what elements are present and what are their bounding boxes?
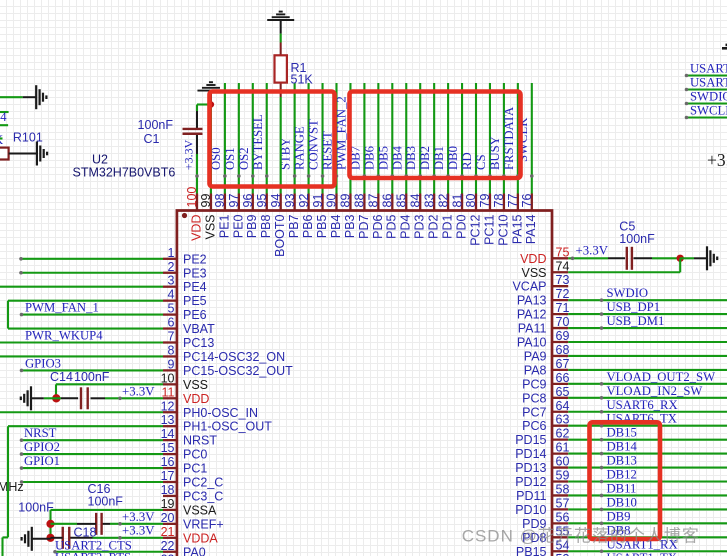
svg-text:PA11: PA11 [518, 322, 547, 336]
wire net BUSY (top pin 78) [503, 83, 505, 194]
svg-text:USART2_RTS: USART2_RTS [55, 551, 131, 556]
svg-text:GPIO1: GPIO1 [24, 454, 60, 468]
svg-text:DB4: DB4 [390, 145, 404, 170]
wire to ground top-left [0, 96, 23, 98]
U2 pin 54 (PB15) right stub + number + name [516, 538, 570, 556]
svg-text:84: 84 [408, 194, 422, 208]
wire net DB12 (right pin 59) [568, 480, 727, 482]
svg-text:VDDA: VDDA [183, 531, 218, 545]
svg-text:6: 6 [168, 316, 175, 330]
svg-text:67: 67 [556, 357, 570, 371]
wire net DB14 (right pin 61) [568, 453, 727, 455]
svg-text:RD: RD [460, 152, 474, 170]
svg-text:85: 85 [394, 194, 408, 208]
U2 pin 90 (PB4) top stub + number + name [325, 194, 343, 239]
svg-text:79: 79 [478, 194, 492, 208]
svg-text:1: 1 [168, 246, 175, 260]
wire VSS pin10 to junction [56, 383, 163, 385]
svg-text:VDD: VDD [183, 392, 209, 406]
svg-text:PA13: PA13 [517, 294, 547, 308]
svg-text:VSS: VSS [521, 266, 546, 280]
capacitor C1 [183, 129, 203, 134]
capacitor C14 [81, 387, 88, 409]
U2 pin 71 (PA12) right stub + number + name [517, 301, 570, 322]
wire net USART6_RX (right pin 64) [568, 411, 727, 413]
svg-text:92: 92 [297, 194, 311, 208]
svg-text:GPIO2: GPIO2 [24, 440, 60, 454]
svg-text:58: 58 [556, 482, 570, 496]
resistor R1 body [275, 55, 287, 82]
wire net OS0 (top pin 98) [224, 83, 226, 194]
U2 pin 59 (PD12) right stub + number + name [515, 469, 569, 490]
svg-text:4: 4 [168, 288, 175, 302]
ground symbol at R101 [37, 142, 47, 166]
wire net DB9 (right pin 56) [568, 522, 727, 524]
svg-text:USART1_TX: USART1_TX [607, 551, 677, 556]
svg-text:PD7: PD7 [357, 214, 371, 238]
svg-text:OS2: OS2 [237, 147, 251, 170]
svg-text:DB6: DB6 [362, 146, 376, 170]
svg-text:PC9: PC9 [522, 377, 546, 391]
svg-text:7: 7 [168, 330, 175, 344]
wire NRST (left pin 14) [22, 439, 164, 441]
svg-text:PE2: PE2 [183, 252, 207, 266]
U2 pin 98 (PE1) top stub + number + name [213, 194, 231, 239]
wire net CONVST (top pin 91) [321, 83, 323, 194]
svg-text:PWR_WKUP4: PWR_WKUP4 [25, 329, 103, 343]
svg-text:61: 61 [556, 441, 570, 455]
svg-text:DB10: DB10 [607, 495, 637, 509]
ground stem to junction [32, 538, 51, 540]
wire net CS (top pin 79) [489, 83, 491, 194]
svg-text:72: 72 [556, 287, 570, 301]
svg-text:10: 10 [161, 371, 175, 385]
wire PE5 (left pin 4) [8, 300, 163, 302]
svg-text:97: 97 [227, 194, 241, 208]
U2 pin 68 (PA9) right stub + number + name [524, 343, 570, 364]
svg-text:VSSA: VSSA [183, 503, 217, 517]
wire VSS pin74 elbow to junction [568, 271, 680, 273]
svg-text:+3.3V: +3.3V [707, 150, 727, 170]
svg-text:PB4: PB4 [329, 214, 343, 238]
wire VSS pin99 to ground [210, 105, 212, 194]
wire C5 to ground junction [652, 257, 680, 259]
svg-text:PB7: PB7 [287, 214, 301, 238]
wire net SWDIO (right pin 72) [568, 299, 727, 301]
svg-text:56: 56 [556, 510, 570, 524]
svg-text:PC8: PC8 [522, 391, 546, 405]
svg-text:PB15: PB15 [516, 545, 547, 556]
svg-text:SWCLK_ES: SWCLK_ES [690, 104, 727, 118]
svg-text:PA0: PA0 [183, 545, 206, 556]
svg-text:95: 95 [255, 194, 269, 208]
U2 pin 12 (PH0-OSC_IN) left stub + number + name [161, 399, 258, 420]
resistor R101 body (cut at left edge) [0, 148, 9, 160]
wire right pin 68 [568, 355, 727, 357]
U2 pin 7 (PC13) left stub + number + name [163, 330, 214, 351]
svg-text:C1: C1 [144, 132, 160, 146]
svg-text:100nF: 100nF [619, 232, 655, 246]
svg-text:PE5: PE5 [183, 294, 207, 308]
U2 pin 93 (PB7) top stub + number + name [283, 194, 301, 239]
svg-text:DB15: DB15 [607, 426, 637, 440]
svg-text:9: 9 [168, 357, 175, 371]
wire junction to ground [680, 257, 694, 259]
U2 pin 4 (PE5) left stub + number + name [163, 288, 207, 309]
svg-text:20: 20 [161, 511, 175, 525]
svg-text:PB9: PB9 [245, 214, 259, 238]
svg-text:PD6: PD6 [371, 214, 385, 238]
svg-text:NRST: NRST [24, 426, 57, 440]
svg-text:21: 21 [161, 525, 175, 539]
svg-text:75: 75 [556, 245, 570, 259]
ground symbol at C5 [707, 246, 717, 270]
svg-text:12: 12 [161, 399, 175, 413]
wire net DB11 (right pin 58) [568, 494, 727, 496]
U2 pin 11 (VDD) left stub + number + name [162, 385, 210, 406]
U2 origin dot [182, 213, 187, 218]
svg-text:BYTESEL: BYTESEL [251, 114, 265, 170]
wire net DB5 (top pin 86) [391, 83, 393, 194]
wire PWM_FAN_1 (left pin 5) [22, 314, 164, 316]
svg-text:DB13: DB13 [607, 454, 637, 468]
svg-text:PD13: PD13 [515, 461, 546, 475]
svg-text:66: 66 [556, 371, 570, 385]
U2 pin 92 (PB6) top stub + number + name [297, 194, 315, 239]
capacitor C5 [627, 247, 632, 270]
svg-text:PC0: PC0 [183, 448, 207, 462]
svg-text:SWDIO: SWDIO [607, 286, 649, 300]
U2 pin 20 (VREF+) left stub + number + name [161, 511, 224, 532]
svg-text:VSS: VSS [203, 215, 217, 240]
svg-text:USART3_TX: USART3_TX [690, 62, 727, 76]
resistor R1 leads [280, 43, 282, 56]
svg-text:DB14: DB14 [607, 440, 638, 454]
wire GPIO1 (left pin 16) [22, 467, 164, 469]
wire stub at left edge y125 [0, 124, 8, 126]
svg-text:PD14: PD14 [515, 447, 546, 461]
wire net DB10 (right pin 57) [568, 508, 727, 510]
svg-text:19: 19 [161, 497, 175, 511]
svg-text:22: 22 [161, 539, 175, 553]
wire net SWCLK_ES (top right) [687, 116, 727, 118]
svg-text:13: 13 [161, 413, 175, 427]
svg-text:VREF+: VREF+ [183, 517, 224, 531]
svg-text:C18: C18 [74, 526, 97, 540]
U2 pin 19 (VSSA) left stub + number + name [161, 497, 217, 518]
U2 pin 67 (PA8) right stub + number + name [524, 357, 570, 378]
junction pin99/C1 [208, 101, 214, 107]
highlight rectangle 3 (DB15-DB8 group) [590, 422, 661, 539]
wire right pin 67 [568, 369, 727, 371]
wire net SWCLK (top pin 76) [531, 83, 533, 194]
ground symbol at C14 [21, 386, 31, 410]
wire USART2_CTS pin22 [55, 551, 163, 553]
svg-text:88: 88 [353, 194, 367, 208]
svg-text:PD4: PD4 [399, 214, 413, 238]
junction C18/ground [46, 534, 54, 542]
U2 pin 96 (PB9) top stub + number + name [241, 194, 259, 239]
capacitor C18 [63, 527, 70, 549]
wire stub at left edge y138 [0, 137, 3, 139]
wire PC2_C (left pin 17) [22, 481, 163, 483]
svg-text:PD1: PD1 [441, 214, 455, 238]
svg-text:VCAP: VCAP [512, 280, 546, 294]
svg-text:PC6: PC6 [522, 419, 546, 433]
svg-text:PC11: PC11 [482, 214, 496, 244]
svg-text:74: 74 [556, 259, 570, 273]
U2 pin 95 (PB8) top stub + number + name [255, 194, 273, 239]
U2 pin 84 (PD3) top stub + number + name [408, 194, 426, 239]
svg-text:PH1-OSC_OUT: PH1-OSC_OUT [183, 420, 272, 434]
capacitor C5 leads [608, 257, 625, 259]
svg-text:U2: U2 [92, 153, 108, 167]
svg-text:DB1: DB1 [432, 146, 446, 170]
ground symbol fragment top right corner [722, 45, 727, 48]
svg-text:14: 14 [161, 427, 175, 441]
svg-text:91: 91 [311, 194, 325, 208]
junction C14/ground/VSS [52, 394, 60, 402]
svg-text:STM32H7B0VBT6: STM32H7B0VBT6 [73, 166, 176, 180]
svg-text:PE6: PE6 [183, 308, 207, 322]
junction C5/VSS/ground [677, 255, 684, 262]
U2 pin 89 (PB3) top stub + number + name [339, 194, 357, 239]
svg-text:PC7: PC7 [522, 405, 546, 419]
U2 pin 86 (PD5) top stub + number + name [381, 194, 399, 239]
wire GPIO2 (left pin 15) [22, 453, 164, 455]
svg-text:94: 94 [269, 194, 283, 208]
U2 pin 79 (PC11) top stub + number + name [478, 194, 496, 245]
U2 pin 64 (PC7) right stub + number + name [522, 399, 569, 420]
svg-text:USART6_RX: USART6_RX [607, 398, 678, 412]
svg-text:PB6: PB6 [301, 214, 315, 238]
wire net DB4 (top pin 85) [405, 83, 407, 194]
wire net VLOAD_IN2_SW (right pin 65) [568, 397, 727, 399]
U2 pin 21 (VDDA) left stub + number + name [161, 525, 219, 546]
svg-text:PA12: PA12 [517, 308, 547, 322]
junction C16/VSSA [46, 520, 54, 528]
wire net VLOAD_OUT2_SW (right pin 66) [568, 383, 727, 385]
U2 pin 10 (VSS) left stub + number + name [161, 371, 208, 392]
svg-text:86: 86 [381, 194, 395, 208]
svg-text:80: 80 [464, 194, 478, 208]
U2 pin 78 (PC10) top stub + number + name [492, 194, 510, 246]
wire VDD pin11 to C14 [105, 397, 163, 399]
U2 pin 83 (PD2) top stub + number + name [422, 194, 440, 239]
svg-text:PD11: PD11 [516, 489, 546, 503]
wire net FRSTDATA (top pin 77) [517, 83, 519, 194]
svg-text:73: 73 [556, 273, 570, 287]
wire net STBY (top pin 93) [294, 83, 296, 194]
U2 pin 58 (PD11) right stub + number + name [516, 482, 569, 503]
wire net DB0 (top pin 81) [461, 83, 463, 194]
svg-text:VSS: VSS [183, 378, 208, 392]
wire net OS1 (top pin 97) [238, 83, 240, 194]
svg-text:SWDIO_ES: SWDIO_ES [690, 90, 727, 104]
capacitor C18 left lead [51, 537, 63, 539]
svg-text:4: 4 [0, 110, 7, 124]
svg-text:PB3: PB3 [343, 214, 357, 238]
svg-text:PC1: PC1 [183, 462, 207, 476]
svg-text:VDD: VDD [189, 215, 203, 241]
wire net DB15 (right pin 62) [568, 439, 727, 441]
U2 pin 63 (PC6) right stub + number + name [522, 413, 569, 434]
wire net OS2 (top pin 96) [252, 83, 254, 194]
ground symbol at C18 [22, 527, 32, 551]
svg-text:PC2_C: PC2_C [183, 476, 223, 490]
svg-text:PC10: PC10 [496, 214, 510, 245]
svg-text:70: 70 [556, 315, 570, 329]
svg-text:+3.3V: +3.3V [122, 385, 155, 399]
wire C1 to VSS junction [196, 105, 198, 112]
U2 pin 87 (PD6) top stub + number + name [367, 194, 385, 239]
svg-text:64: 64 [556, 399, 570, 413]
svg-text:CONVST: CONVST [307, 119, 321, 170]
svg-text:DB9: DB9 [607, 509, 631, 523]
wire PC14-OSC32_ON (left pin 8) [0, 355, 163, 357]
svg-text:59: 59 [556, 469, 570, 483]
U2 pin 57 (PD10) right stub + number + name [515, 496, 569, 517]
svg-text:65: 65 [556, 385, 570, 399]
wire net DB1 (top pin 82) [447, 83, 449, 194]
svg-text:DB3: DB3 [404, 146, 418, 170]
wire oscillator branch vertical [7, 426, 9, 537]
svg-text:3: 3 [168, 274, 175, 288]
U2 pin 88 (PD7) top stub + number + name [353, 194, 371, 239]
wire net SWDIO_ES (top right) [687, 102, 727, 104]
U2 pin 6 (VBAT) left stub + number + name [163, 316, 215, 337]
wire net RESET (top pin 90) [335, 83, 337, 194]
svg-text:FRSTDATA: FRSTDATA [502, 106, 516, 170]
svg-text:5: 5 [168, 302, 175, 316]
wire right pin 69 [568, 341, 727, 343]
svg-text:R101: R101 [13, 131, 43, 145]
wire VBAT (left pin 6) [8, 327, 163, 329]
wire stub at left edge y112 [0, 111, 9, 113]
svg-text:PE0: PE0 [231, 214, 245, 238]
U2 pin 2 (PE3) left stub + number + name [163, 260, 207, 281]
wire PH0-OSC_IN (left pin 12) [0, 411, 163, 413]
svg-text:96: 96 [241, 194, 255, 208]
U2 pin 94 (BOOT0) top stub + number + name [269, 194, 287, 257]
U2 pin 77 (PA15) top stub + number + name [506, 194, 524, 245]
wire net USART1_RX (right pin 54) [568, 550, 727, 552]
svg-text:87: 87 [367, 194, 381, 208]
U2 pin 60 (PD13) right stub + number + name [515, 455, 569, 476]
U2 pin 15 (PC0) left stub + number + name [161, 441, 208, 462]
svg-text:82: 82 [436, 194, 450, 208]
svg-text:25MHz: 25MHz [0, 480, 24, 494]
U2 pin 22 (PA0) left stub + number + name [161, 539, 206, 556]
svg-text:98: 98 [213, 194, 227, 208]
svg-text:68: 68 [556, 343, 570, 357]
svg-text:DB2: DB2 [418, 146, 432, 170]
svg-text:11: 11 [162, 385, 175, 399]
svg-text:VBAT: VBAT [183, 322, 215, 336]
svg-text:RANGE: RANGE [293, 126, 307, 170]
svg-text:PE4: PE4 [183, 280, 207, 294]
wire PWR_WKUP4 (left pin 7) [0, 341, 163, 343]
svg-text:15: 15 [161, 441, 175, 455]
wire PE3 (left pin 2) [21, 272, 163, 274]
U2 pin 16 (PC1) left stub + number + name [161, 455, 208, 476]
svg-text:DB5: DB5 [376, 146, 390, 170]
svg-text:100nF: 100nF [18, 501, 54, 515]
U2 pin 80 (PC12) top stub + number + name [464, 194, 482, 246]
svg-text:89: 89 [339, 194, 353, 208]
svg-text:+3.3V: +3.3V [182, 139, 196, 170]
svg-text:+3.3V: +3.3V [122, 510, 155, 524]
U2 pin 9 (PC15-OSC32_OUT) left stub + number + name [163, 357, 293, 378]
svg-text:100nF: 100nF [74, 370, 110, 384]
wire net PWM_FAN_2 (top pin 89) [349, 83, 351, 194]
U2 pin 61 (PD14) right stub + number + name [515, 441, 569, 462]
svg-text:8: 8 [168, 343, 175, 357]
svg-text:PA9: PA9 [524, 349, 547, 363]
svg-text:BOOT0: BOOT0 [273, 214, 287, 256]
svg-text:PC13: PC13 [183, 336, 214, 350]
U2 pin 65 (PC8) right stub + number + name [522, 385, 569, 406]
wire VSSA pin19 to junction [51, 509, 164, 511]
svg-text:PB8: PB8 [259, 214, 273, 238]
svg-text:NRST: NRST [183, 434, 217, 448]
U2 pin 70 (PA11) right stub + number + name [518, 315, 570, 336]
wire net DB2 (top pin 83) [433, 83, 435, 194]
svg-text:PA8: PA8 [524, 363, 547, 377]
U2 pin 81 (PD0) top stub + number + name [450, 194, 468, 239]
svg-text:PC12: PC12 [468, 214, 482, 245]
U2 pin 18 (PC3_C) left stub + number + name [161, 483, 224, 504]
svg-text:90: 90 [325, 194, 339, 208]
wire net DB13 (right pin 60) [568, 466, 727, 468]
svg-text:PD15: PD15 [515, 433, 546, 447]
U2 pin 76 (PA14) top stub + number + name [520, 194, 538, 245]
svg-text:PD12: PD12 [515, 475, 546, 489]
wire net USB_DP1 (right pin 71) [568, 313, 727, 315]
U2 pin 82 (PD1) top stub + number + name [436, 194, 454, 239]
svg-text:VLOAD_OUT2_SW: VLOAD_OUT2_SW [607, 370, 716, 384]
svg-text:60: 60 [556, 455, 570, 469]
wire elbow pin4 to pin6 row [7, 301, 9, 329]
svg-text:PC15-OSC32_OUT: PC15-OSC32_OUT [183, 364, 293, 378]
ground symbol top-left [36, 85, 46, 109]
U2 pin 74 (VSS) right stub + number + name [521, 259, 569, 280]
svg-text:100nF: 100nF [88, 495, 124, 509]
U2 pin 17 (PC2_C) left stub + number + name [161, 469, 224, 490]
svg-text:17: 17 [161, 469, 175, 483]
U2 pin 69 (PA10) right stub + number + name [517, 329, 570, 350]
capacitor C16 left lead [51, 523, 78, 525]
svg-text:100nF: 100nF [138, 118, 174, 132]
wire PE4 (left pin 3) [0, 286, 163, 288]
svg-text:PD0: PD0 [454, 214, 468, 238]
svg-text:DB0: DB0 [446, 146, 460, 170]
svg-text:DB12: DB12 [607, 468, 637, 482]
svg-text:57: 57 [556, 496, 570, 510]
svg-text:PH0-OSC_IN: PH0-OSC_IN [183, 406, 258, 420]
svg-text:GPIO3: GPIO3 [25, 356, 61, 370]
svg-text:PA15: PA15 [510, 214, 524, 244]
U2 pin 5 (PE6) left stub + number + name [163, 302, 207, 323]
svg-text:PE1: PE1 [217, 214, 231, 238]
svg-text:CSDN @花开花落的个人博客: CSDN @花开花落的个人博客 [462, 527, 700, 546]
U2 pin 75 (VDD) right stub + number + name [520, 245, 569, 266]
svg-text:83: 83 [422, 194, 436, 208]
svg-text:PC14-OSC32_ON: PC14-OSC32_ON [183, 350, 285, 364]
wire net USART6_TX (right pin 63) [568, 425, 727, 427]
wire net USART3_TX (top right) [687, 74, 727, 76]
svg-text:76: 76 [520, 194, 534, 208]
